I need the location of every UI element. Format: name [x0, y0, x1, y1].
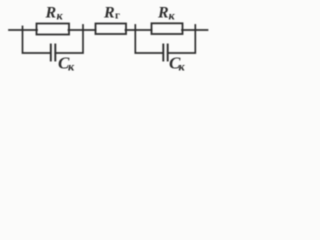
- svg-text:г: г: [115, 10, 120, 22]
- svg-text:к: к: [57, 9, 64, 23]
- resistor R3 box: [152, 23, 183, 34]
- resistor R2 box: [96, 24, 127, 35]
- wire between R1 and R2: [69, 29, 96, 31]
- svg-text:к: к: [68, 60, 75, 74]
- svg-text:R: R: [45, 5, 57, 22]
- wire left lead: [9, 29, 37, 31]
- capacitor C1 left plate: [50, 45, 52, 61]
- svg-text:R: R: [103, 5, 115, 22]
- capacitor C1 right plate: [54, 45, 56, 61]
- node A / wire: left vertical of C1 branch: [23, 27, 51, 54]
- resistor R1 box: [37, 24, 70, 35]
- capacitor C2 right plate: [167, 45, 169, 61]
- wire right lead: [182, 29, 208, 31]
- svg-text:к: к: [179, 60, 186, 74]
- svg-text:к: к: [169, 9, 176, 23]
- wire: bottom of C1 branch to right vertical: [55, 25, 83, 53]
- wire: left vertical of C2 branch: [135, 25, 163, 53]
- svg-text:R: R: [157, 5, 169, 22]
- wire: bottom of C2 branch to right vertical: [168, 25, 196, 53]
- capacitor C2 left plate: [162, 45, 164, 61]
- wire between R2 and R3: [126, 29, 152, 31]
